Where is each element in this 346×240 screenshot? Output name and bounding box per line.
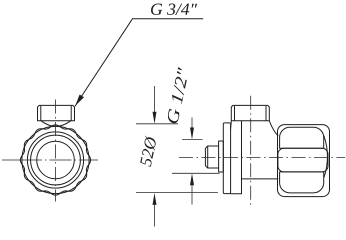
right view: hex nut top face (280, 127, 324, 148)
label 52dia rotated (139, 135, 157, 167)
left view: neck arc under nut (41, 121, 71, 127)
left nut chamfer line right (70, 106, 72, 120)
right view: body step edge to hex (242, 178, 278, 180)
left nut chamfer line left (40, 106, 42, 120)
dimension G1/2: lower arrowhead (190, 173, 194, 185)
dimension G1/2: upper arrow stem (191, 118, 193, 128)
right view horizontal centerline (179, 156, 345, 158)
right view: neck curve left of body (229, 121, 232, 130)
outlet thread stub chamfer line (207, 146, 209, 167)
right nut chamfer line left (234, 106, 236, 120)
left view: bore circle (37, 141, 75, 179)
right view: neck curve right of body (269, 121, 278, 136)
right view: hex nut end chamfer arc (324, 136, 327, 177)
right view: wall flange (223, 123, 230, 194)
dimension G1/2: upper arrowhead (190, 128, 194, 140)
dimension 52dia: lower arrow stem (154, 205, 156, 227)
label G 1/2" rotated (166, 67, 189, 124)
left view vertical centerline (55, 100, 57, 202)
left view: flange circle behind knob (22, 126, 89, 193)
right view: top hex nut (231, 105, 269, 120)
right view: outlet collar (219, 141, 224, 172)
right view: body bottom edge (231, 193, 242, 195)
leader line to top nut (75, 19, 203, 106)
right view: hex nut bottom face (280, 172, 324, 193)
dimension 52dia: bottom extension line (136, 192, 218, 194)
dimension G1/2: bottom extension line (172, 172, 220, 174)
left view: top hex nut G3/4 (38, 105, 75, 120)
left view: knob inner ring (31, 135, 81, 185)
dimension 52dia: top extension line (136, 123, 178, 125)
dimension G1/2: lower arrow stem (191, 185, 193, 204)
right nut chamfer line right (265, 106, 267, 120)
dimension 52dia: lower arrowhead (153, 193, 157, 205)
dimension 52dia: upper arrow stem (154, 86, 156, 112)
dimension 52dia: upper arrowhead (153, 112, 157, 124)
dimension G1/2: top extension line (182, 139, 203, 141)
right view vertical centerline (250, 96, 252, 207)
leader arrowhead (75, 95, 84, 106)
left view: knob scalloped rim (20, 125, 90, 195)
right view: hex nut middle face (278, 148, 328, 172)
right view: outlet thread stub (205, 146, 218, 168)
label G 3/4" (151, 4, 197, 16)
left view: knob face circle (27, 132, 83, 188)
left view horizontal centerline (2, 159, 98, 161)
right view: hex nut outline (278, 125, 330, 197)
right view: body vertical line (241, 121, 243, 194)
